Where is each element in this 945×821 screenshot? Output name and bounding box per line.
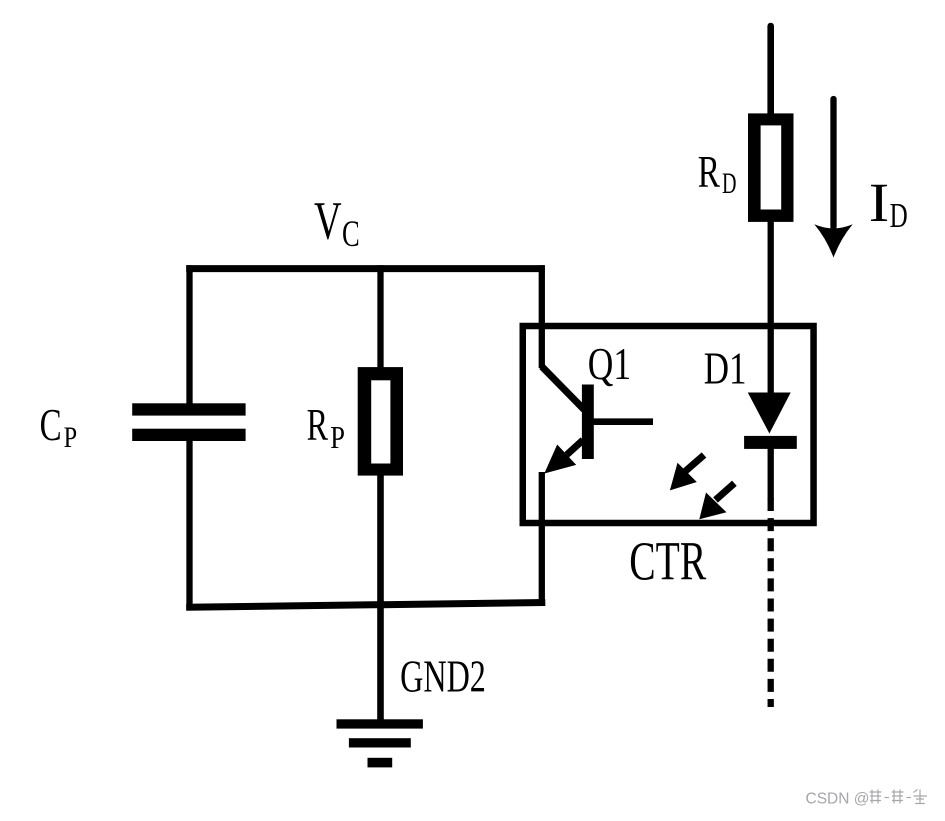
svg-text:P: P — [330, 420, 345, 455]
light emission arrow 1 — [670, 455, 704, 490]
svg-text:V: V — [314, 190, 342, 250]
watermark CSDN — [806, 791, 870, 808]
svg-text:CTR: CTR — [629, 531, 706, 592]
transistor Q1 base lead — [593, 418, 653, 425]
svg-text:R: R — [698, 146, 721, 197]
svg-text:C: C — [40, 399, 62, 450]
resistor R_D body — [748, 113, 794, 221]
wire emitter down to bottom rail — [539, 472, 545, 606]
wire left vertical upper — [186, 265, 192, 404]
optocoupler box U1 — [523, 326, 814, 523]
capacitor C_P bottom plate — [132, 429, 245, 441]
transistor Q1 base bar — [582, 385, 594, 460]
wire below diode cathode — [768, 449, 774, 500]
node V_C label — [314, 190, 360, 255]
ground GND2 symbol — [337, 719, 423, 767]
diode D1 anode triangle — [748, 393, 791, 434]
svg-text:CSDN @: CSDN @ — [806, 791, 870, 808]
svg-text:D: D — [722, 168, 737, 200]
resistor R_D label — [698, 146, 737, 200]
current I_D label — [869, 173, 908, 235]
wire top rail V_C — [186, 265, 545, 272]
svg-text:R: R — [307, 399, 329, 450]
light emission arrow 2 — [699, 483, 734, 519]
svg-text:D1: D1 — [704, 343, 747, 394]
dashed continuation line — [768, 498, 774, 707]
wire R_P branch lower to ground — [377, 475, 384, 720]
transistor Q1 emitter arrowhead — [544, 445, 576, 474]
wire bottom rail — [186, 603, 545, 608]
resistor R_P body — [358, 367, 403, 476]
svg-text:C: C — [342, 214, 360, 255]
wire R_D top feed — [767, 26, 774, 117]
wire R_D to diode D1 — [768, 220, 774, 394]
diode D1 cathode bar — [744, 436, 797, 449]
watermark username glyphs — [870, 790, 928, 804]
svg-text:Q1: Q1 — [588, 338, 631, 389]
current arrow I_D — [814, 99, 852, 258]
svg-text:GND2: GND2 — [400, 651, 486, 702]
wire right vertical collector feed — [539, 265, 545, 368]
transistor Q1 emitter lead — [567, 440, 583, 455]
svg-text:I: I — [869, 173, 890, 234]
wire R_P branch upper — [377, 265, 383, 369]
capacitor C_P top plate — [132, 403, 245, 415]
wire left vertical lower — [186, 441, 192, 611]
resistor R_P label — [307, 399, 345, 455]
capacitor C_P label — [40, 399, 78, 454]
transistor Q1 collector lead — [542, 367, 584, 410]
svg-text:P: P — [64, 422, 78, 454]
svg-text:D: D — [890, 196, 908, 235]
